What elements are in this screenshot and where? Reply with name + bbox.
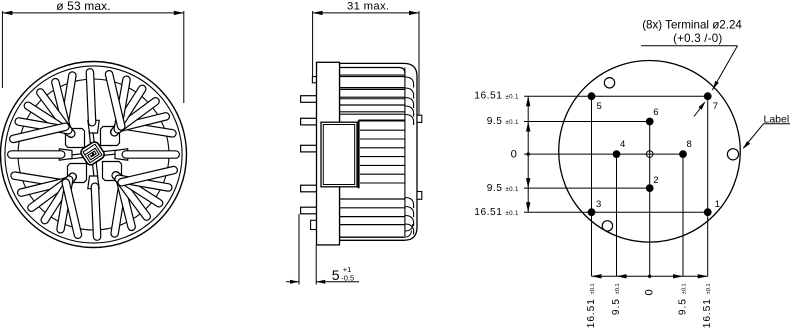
svg-text:6: 6 (653, 107, 658, 118)
svg-text:±0.1: ±0.1 (615, 283, 621, 294)
svg-text:8: 8 (687, 139, 692, 150)
svg-text:±0.1: ±0.1 (681, 283, 687, 294)
svg-text:(8x) Terminal ø2.24: (8x) Terminal ø2.24 (642, 18, 742, 31)
svg-text:±0.1: ±0.1 (505, 94, 519, 101)
svg-text:2: 2 (653, 175, 658, 186)
svg-text:9.5: 9.5 (487, 116, 503, 127)
svg-text:+1: +1 (343, 265, 352, 274)
svg-text:0: 0 (511, 149, 517, 161)
svg-text:9.5: 9.5 (611, 298, 622, 315)
svg-text:±0.1: ±0.1 (505, 210, 519, 217)
svg-text:5: 5 (332, 267, 340, 283)
svg-text:3: 3 (596, 199, 601, 210)
svg-text:9.5: 9.5 (677, 298, 688, 315)
svg-text:16.51: 16.51 (474, 207, 502, 218)
svg-text:16.51: 16.51 (474, 91, 502, 102)
svg-text:(+0.3 /-0): (+0.3 /-0) (673, 32, 722, 45)
svg-text:±0.1: ±0.1 (505, 186, 519, 193)
svg-text:9.5: 9.5 (487, 183, 503, 194)
svg-text:±0.1: ±0.1 (590, 283, 596, 294)
svg-text:±0.1: ±0.1 (505, 119, 519, 126)
svg-text:7: 7 (713, 101, 718, 112)
svg-text:1: 1 (715, 199, 720, 210)
svg-text:0: 0 (643, 289, 655, 295)
svg-text:-0.5: -0.5 (341, 274, 354, 283)
svg-text:16.51: 16.51 (586, 298, 597, 328)
svg-text:31 max.: 31 max. (347, 1, 389, 13)
svg-text:5: 5 (597, 101, 602, 112)
svg-text:±0.1: ±0.1 (706, 283, 712, 294)
svg-text:16.51: 16.51 (702, 298, 713, 328)
svg-text:ø 53 max.: ø 53 max. (56, 0, 110, 13)
svg-text:4: 4 (620, 139, 625, 150)
